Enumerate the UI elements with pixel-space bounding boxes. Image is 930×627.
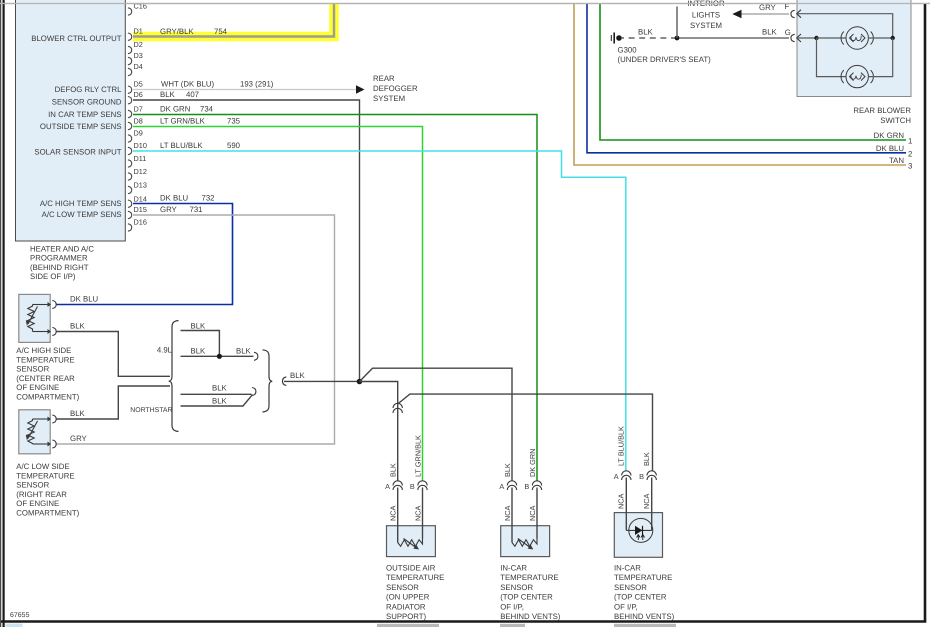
svg-text:BLK: BLK [503,463,512,477]
wire BLK branch to in-car sensor 2 B [398,394,653,470]
svg-text:BLK: BLK [70,322,86,331]
wire BLK from high side sensor [57,332,171,377]
svg-text:SWITCH: SWITCH [880,116,911,125]
arrow to rear defogger system [356,85,365,93]
svg-text:734: 734 [200,105,214,114]
svg-text:G300: G300 [618,46,638,55]
svg-text:732: 732 [202,194,215,203]
svg-text:(ON UPPER: (ON UPPER [386,593,430,602]
wire BLK splice to in-car sensor A [360,368,513,481]
svg-text:(TOP CENTER: (TOP CENTER [500,593,553,602]
svg-text:B: B [639,472,644,481]
connector U1 heater and A/C programmer box [16,0,126,281]
svg-text:SENSOR: SENSOR [614,583,647,592]
svg-text:DEFOGGER: DEFOGGER [373,84,418,93]
svg-text:(TOP CENTER: (TOP CENTER [614,593,667,602]
svg-text:TAN: TAN [889,156,904,165]
pins A B of in-car sensor 1 [507,481,541,490]
svg-text:590: 590 [227,141,241,150]
svg-text:A/C LOW SIDE: A/C LOW SIDE [16,462,69,471]
svg-text:BLK: BLK [212,384,228,393]
svg-text:OF I/P,: OF I/P, [614,602,638,611]
pins A B of outside air sensor [393,481,427,490]
splice junction S1 [357,379,363,385]
svg-text:(CENTER REAR: (CENTER REAR [16,374,75,383]
svg-text:COMPARTMENT): COMPARTMENT) [16,509,79,518]
svg-text:SENSOR GROUND: SENSOR GROUND [52,97,122,106]
lamp L2 loop [817,38,893,88]
svg-text:1: 1 [908,137,912,146]
svg-text:DK GRN: DK GRN [528,449,537,477]
svg-text:735: 735 [227,117,241,126]
pin F connector [791,10,795,17]
svg-text:A/C HIGH SIDE: A/C HIGH SIDE [16,346,71,355]
svg-text:OUTSIDE TEMP SENS: OUTSIDE TEMP SENS [40,122,122,131]
svg-text:(BEHIND RIGHT: (BEHIND RIGHT [30,263,89,272]
wire BLK dashed to ground G300 [622,37,677,39]
svg-text:REAR: REAR [373,74,395,83]
svg-text:IN-CAR: IN-CAR [500,564,527,573]
pins A B of in-car sensor 2 [622,471,657,480]
A/C low side temperature sensor [16,410,79,518]
svg-text:D14: D14 [134,195,147,204]
svg-text:SYSTEM: SYSTEM [690,21,722,30]
svg-text:GRY: GRY [160,205,178,214]
svg-text:IN CAR TEMP SENS: IN CAR TEMP SENS [48,110,121,119]
in-line connector on outside air ground wire [393,403,402,413]
svg-text:BLK: BLK [290,371,306,380]
svg-text:D7: D7 [134,105,143,114]
svg-text:3: 3 [908,162,912,171]
svg-text:BLK: BLK [642,452,651,466]
svg-text:D4: D4 [134,62,143,71]
svg-text:OF I/P,: OF I/P, [500,602,524,611]
wire D6 BLK 407 [133,100,360,382]
top frame line overlay [0,3,930,5]
svg-text:B: B [524,482,529,491]
svg-text:193 (291): 193 (291) [240,80,274,89]
svg-text:NCA: NCA [642,493,651,509]
svg-text:2: 2 [908,150,912,159]
wire NORTHSTAR BLK lower diagonal [181,395,253,406]
wire 4.9L BLK jumper upper [181,331,220,357]
wire NORTHSTAR BLK upper [181,393,252,395]
svg-text:D16: D16 [134,218,147,227]
off-page connector BLK to splice [283,377,287,385]
svg-text:SENSOR: SENSOR [386,583,419,592]
svg-text:A: A [499,482,504,491]
svg-text:D8: D8 [134,117,143,126]
pin arrows [33,304,48,306]
svg-text:TEMPERATURE: TEMPERATURE [16,355,74,364]
svg-text:OUTSIDE AIR: OUTSIDE AIR [386,564,436,573]
svg-text:BLOWER CTRL OUTPUT: BLOWER CTRL OUTPUT [31,34,121,43]
svg-text:NCA: NCA [617,493,626,509]
svg-text:D13: D13 [134,181,147,190]
engine split right brace [263,350,273,412]
svg-text:OF ENGINE: OF ENGINE [16,499,59,508]
in-car temperature sensor 2 [614,478,675,622]
svg-text:G: G [785,28,791,37]
wire D14 DK BLU 732 [57,204,233,305]
svg-text:BLK: BLK [389,463,398,477]
wire inside box from G to lamps [797,37,817,39]
A/C high side temperature sensor [16,294,79,401]
left page border [1,0,4,627]
svg-text:D3: D3 [134,51,143,60]
svg-text:BLK: BLK [762,28,778,37]
svg-text:LIGHTS: LIGHTS [692,11,720,20]
svg-text:OF ENGINE: OF ENGINE [16,383,59,392]
svg-text:C16: C16 [134,2,147,11]
wire D15 GRY 731 [57,215,335,444]
svg-text:BLK: BLK [70,409,86,418]
svg-text:LT BLU/BLK: LT BLU/BLK [617,426,626,466]
svg-text:BLK: BLK [191,322,207,331]
svg-text:GRY: GRY [759,3,777,12]
svg-text:DEFOG RLY CTRL: DEFOG RLY CTRL [55,85,123,94]
wire D7 DK GRN 734 [133,115,537,482]
svg-text:RADIATOR: RADIATOR [386,602,426,611]
svg-text:BLK: BLK [212,397,228,406]
lamp L1 [817,27,893,49]
svg-text:SENSOR: SENSOR [500,583,533,592]
svg-text:TEMPERATURE: TEMPERATURE [386,573,444,582]
svg-text:D2: D2 [134,40,143,49]
wire D1 GRY/BLK 754 yellow highlighted [133,4,334,37]
wire up from junction [676,7,678,39]
svg-text:67655: 67655 [10,612,30,619]
svg-text:D5: D5 [134,80,143,89]
svg-text:LT GRN/BLK: LT GRN/BLK [160,117,206,126]
svg-text:DK BLU: DK BLU [70,295,99,304]
svg-text:SIDE OF I/P): SIDE OF I/P) [30,272,76,281]
svg-text:754: 754 [214,27,228,36]
svg-text:DK BLU: DK BLU [876,144,905,153]
svg-text:BLK: BLK [638,28,654,37]
svg-text:SUPPORT): SUPPORT) [386,612,427,621]
svg-text:4.9L: 4.9L [157,346,173,355]
svg-text:TEMPERATURE: TEMPERATURE [500,573,558,582]
thermistor arrow [28,307,38,325]
svg-text:D1: D1 [134,27,143,36]
in-car temperature sensor 1 [500,488,561,622]
svg-text:SOLAR SENSOR INPUT: SOLAR SENSOR INPUT [34,147,121,156]
svg-text:BLK: BLK [160,90,176,99]
wire D8 LT GRN/BLK 735 [133,127,423,482]
svg-text:DK GRN: DK GRN [160,105,190,114]
svg-text:BLK: BLK [191,347,207,356]
svg-text:NCA: NCA [413,505,422,521]
junction on dashed wire [675,36,680,41]
svg-text:DK BLU: DK BLU [160,194,189,203]
svg-text:HEATER AND A/C: HEATER AND A/C [30,244,94,253]
svg-text:TEMPERATURE: TEMPERATURE [614,573,672,582]
svg-text:D9: D9 [134,129,143,138]
wire inside box from F [797,14,893,38]
svg-text:NORTHSTAR: NORTHSTAR [130,407,172,414]
svg-text:A/C LOW TEMP SENS: A/C LOW TEMP SENS [42,210,122,219]
rear blower switch box [797,0,911,97]
svg-text:NCA: NCA [528,505,537,521]
svg-text:SYSTEM: SYSTEM [373,94,405,103]
svg-text:D10: D10 [134,141,147,150]
svg-text:D12: D12 [134,167,147,176]
bottom page border [1,620,926,623]
svg-text:PROGRAMMER: PROGRAMMER [30,254,88,263]
svg-text:REAR BLOWER: REAR BLOWER [853,106,911,115]
svg-text:COMPARTMENT): COMPARTMENT) [16,393,79,402]
svg-text:BEHIND VENTS): BEHIND VENTS) [614,612,675,621]
svg-text:D11: D11 [134,154,147,163]
wire D10 LT BLU/BLK 590 [133,151,626,471]
svg-text:D15: D15 [134,205,147,214]
svg-text:(UNDER DRIVER'S SEAT): (UNDER DRIVER'S SEAT) [618,55,712,64]
right page border [924,4,927,622]
svg-text:GRY: GRY [70,434,88,443]
top frame line [0,3,930,5]
svg-text:A: A [385,482,390,491]
engine split left brace [169,321,179,432]
svg-text:BEHIND VENTS): BEHIND VENTS) [500,612,561,621]
svg-text:WHT (DK BLU): WHT (DK BLU) [161,80,215,89]
svg-text:SENSOR: SENSOR [16,365,49,374]
svg-text:SENSOR: SENSOR [16,481,49,490]
svg-text:A: A [614,472,619,481]
wire BLK from low side sensor [57,386,171,419]
wire DK GRN to pin 1 [600,4,906,140]
wire GRY to pin F [742,13,790,15]
svg-text:NCA: NCA [503,505,512,521]
svg-text:D6: D6 [134,90,143,99]
svg-text:731: 731 [190,205,203,214]
wire BLK splice to outside air sensor A [360,382,398,482]
ground G300 [611,33,711,65]
wire TAN to pin 3 [574,4,906,165]
bottom cut-off row [6,624,23,627]
svg-text:BLK: BLK [236,347,252,356]
svg-text:LT BLU/BLK: LT BLU/BLK [160,141,203,150]
svg-text:IN-CAR: IN-CAR [614,564,641,573]
svg-text:A/C HIGH TEMP SENS: A/C HIGH TEMP SENS [40,199,122,208]
wire DK BLU to pin 2 [587,4,906,153]
wire 4.9L BLK lower with splice [181,355,254,357]
svg-text:(RIGHT REAR: (RIGHT REAR [16,490,67,499]
svg-text:TEMPERATURE: TEMPERATURE [16,471,74,480]
outside air temperature sensor [386,488,444,622]
svg-text:407: 407 [186,90,199,99]
thermistor zigzag [28,305,34,332]
svg-text:LT GRN/BLK: LT GRN/BLK [413,435,422,477]
svg-text:GRY/BLK: GRY/BLK [160,27,194,36]
wire D5 WHT (DK BLU) to rear defogger [133,89,357,91]
svg-text:NCA: NCA [389,505,398,521]
svg-text:B: B [410,482,415,491]
connector pins C16 D1-D16 [128,8,132,231]
svg-text:DK GRN: DK GRN [874,131,904,140]
